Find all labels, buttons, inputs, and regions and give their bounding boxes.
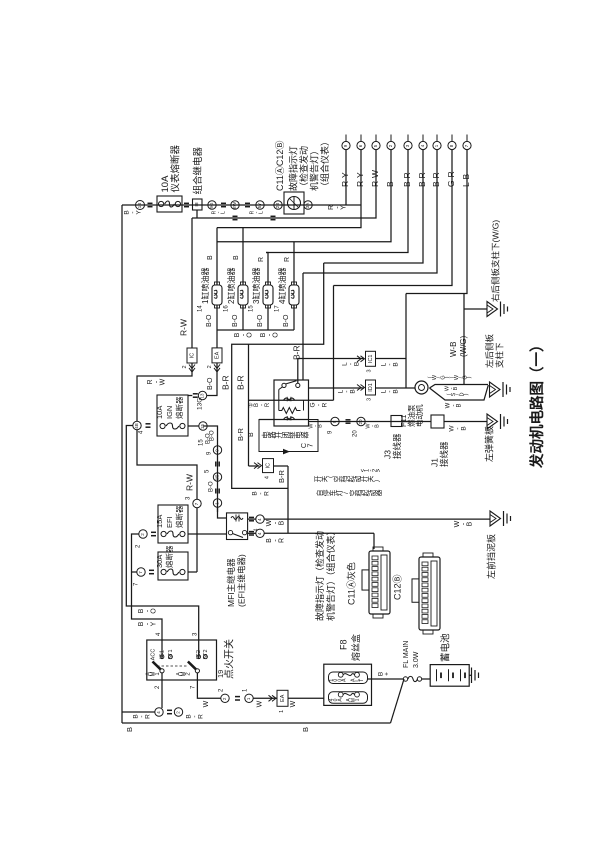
svg-text:C11ⒶC12Ⓑ: C11ⒶC12Ⓑ bbox=[275, 141, 285, 191]
svg-text:30A: 30A bbox=[155, 555, 164, 568]
svg-text:B: B bbox=[279, 520, 286, 525]
svg-text:3: 3 bbox=[366, 369, 372, 372]
svg-text:B-R: B-R bbox=[220, 375, 230, 390]
svg-text:R: R bbox=[258, 257, 265, 262]
svg-text:Y: Y bbox=[341, 205, 348, 210]
svg-text:B-R: B-R bbox=[417, 172, 427, 187]
svg-text:B: B bbox=[453, 386, 459, 390]
svg-text:机警告灯）（组合仪表）: 机警告灯）（组合仪表） bbox=[325, 526, 336, 621]
svg-text:): ) bbox=[467, 376, 473, 378]
svg-text:20: 20 bbox=[353, 430, 359, 437]
svg-text:FL MAIN: FL MAIN bbox=[403, 641, 410, 668]
svg-text:B-R: B-R bbox=[291, 345, 301, 360]
svg-text:1E: 1E bbox=[215, 475, 220, 481]
svg-text:机警告灯）: 机警告灯） bbox=[308, 146, 319, 191]
svg-text:4B: 4B bbox=[134, 423, 139, 429]
svg-text:左后侧板: 左后侧板 bbox=[484, 333, 494, 368]
svg-text:O: O bbox=[273, 332, 280, 338]
svg-text:B: B bbox=[248, 432, 255, 437]
svg-text:熔断器: 熔断器 bbox=[174, 505, 184, 528]
svg-text:B: B bbox=[125, 727, 134, 732]
svg-text:): ) bbox=[464, 393, 470, 395]
svg-text:L: L bbox=[259, 211, 265, 214]
svg-text:5Y: 5Y bbox=[257, 203, 262, 209]
svg-text:1: 1 bbox=[355, 698, 361, 701]
svg-text:故障指示灯（检查发动: 故障指示灯（检查发动 bbox=[314, 531, 325, 621]
svg-text:B-O: B-O bbox=[209, 481, 215, 492]
svg-text:R: R bbox=[264, 491, 271, 496]
svg-text:≋: ≋ bbox=[195, 202, 201, 207]
svg-text:7: 7 bbox=[306, 444, 315, 448]
svg-text:20: 20 bbox=[358, 419, 363, 425]
svg-text:1缸喷油器: 1缸喷油器 bbox=[200, 268, 210, 304]
svg-text:L-B: L-B bbox=[461, 173, 471, 187]
svg-text:左弹簧板: 左弹簧板 bbox=[483, 426, 494, 462]
svg-text:B-O: B-O bbox=[283, 314, 290, 327]
svg-text:B: B bbox=[207, 255, 214, 260]
svg-text:F8: F8 bbox=[338, 639, 348, 650]
svg-text:4: 4 bbox=[264, 476, 270, 479]
svg-text:W: W bbox=[160, 378, 167, 385]
svg-text:熔断器: 熔断器 bbox=[164, 545, 174, 568]
svg-text:J3: J3 bbox=[382, 450, 392, 459]
svg-text:电动机: 电动机 bbox=[414, 404, 424, 427]
svg-text:IC: IC bbox=[189, 353, 195, 359]
svg-text:Y: Y bbox=[151, 621, 158, 626]
svg-text:3缸喷油器: 3缸喷油器 bbox=[251, 268, 261, 304]
svg-text:W: W bbox=[290, 700, 297, 707]
svg-text:右后侧板支柱下(W/G): 右后侧板支柱下(W/G) bbox=[490, 220, 500, 302]
svg-text:B-O: B-O bbox=[232, 314, 239, 327]
svg-text:3A: 3A bbox=[305, 203, 310, 209]
svg-text:EA: EA bbox=[214, 351, 220, 359]
svg-text:R: R bbox=[279, 538, 286, 543]
svg-text:15A: 15A bbox=[155, 515, 164, 528]
svg-text:B: B bbox=[233, 255, 240, 260]
svg-text:+: + bbox=[384, 672, 391, 676]
svg-text:B-R: B-R bbox=[235, 375, 245, 390]
svg-text:B: B bbox=[301, 727, 310, 732]
svg-text:B: B bbox=[350, 389, 357, 393]
svg-text:C12Ⓑ: C12Ⓑ bbox=[392, 574, 402, 600]
svg-text:14: 14 bbox=[198, 305, 204, 312]
svg-text:(W/G): (W/G) bbox=[459, 335, 468, 357]
svg-text:2缸喷油器: 2缸喷油器 bbox=[226, 268, 236, 304]
svg-text:MFI主继电器: MFI主继电器 bbox=[226, 558, 236, 607]
svg-text:熔断器: 熔断器 bbox=[174, 396, 184, 419]
svg-text:(EFI主继电器): (EFI主继电器) bbox=[236, 554, 246, 607]
svg-text:B: B bbox=[461, 426, 468, 430]
svg-text:W-B: W-B bbox=[449, 342, 458, 357]
svg-text:Y: Y bbox=[136, 210, 143, 215]
svg-text:G-R: G-R bbox=[446, 171, 456, 187]
svg-text:10A: 10A bbox=[160, 175, 171, 193]
svg-text:19: 19 bbox=[216, 670, 225, 678]
svg-text:左前挡泥板: 左前挡泥板 bbox=[485, 534, 496, 579]
svg-text:R: R bbox=[265, 402, 271, 407]
svg-text:ACC: ACC bbox=[150, 649, 156, 661]
svg-text:蓄电池: 蓄电池 bbox=[440, 633, 452, 662]
svg-text:R-Y: R-Y bbox=[340, 172, 350, 187]
svg-text:器: 器 bbox=[301, 431, 310, 438]
svg-text:ID1: ID1 bbox=[368, 383, 374, 392]
svg-text:B: B bbox=[393, 362, 400, 366]
svg-text:>: > bbox=[377, 468, 383, 472]
svg-text:B: B bbox=[317, 424, 323, 428]
svg-text:15: 15 bbox=[199, 439, 205, 446]
svg-text:熔丝盒: 熔丝盒 bbox=[350, 634, 361, 661]
svg-text:B: B bbox=[467, 521, 474, 526]
svg-text:B-O: B-O bbox=[210, 430, 216, 441]
svg-text:B-R: B-R bbox=[236, 428, 245, 442]
svg-text:接线器: 接线器 bbox=[439, 441, 449, 467]
svg-text:3.0W: 3.0W bbox=[413, 651, 420, 668]
svg-text:IC: IC bbox=[265, 463, 271, 469]
svg-text:C11Ⓐ灰色: C11Ⓐ灰色 bbox=[345, 562, 356, 605]
svg-text:17: 17 bbox=[275, 305, 281, 312]
svg-text:EA: EA bbox=[280, 694, 286, 702]
svg-text:B-R: B-R bbox=[431, 172, 441, 187]
svg-text:B: B bbox=[385, 181, 395, 187]
svg-text:15: 15 bbox=[249, 305, 255, 312]
svg-text:接线器: 接线器 bbox=[392, 433, 402, 459]
svg-text:O: O bbox=[247, 332, 254, 338]
svg-text:13: 13 bbox=[200, 393, 205, 399]
svg-text:B-R: B-R bbox=[402, 172, 412, 187]
svg-text:16: 16 bbox=[224, 305, 230, 312]
svg-text:1: 1 bbox=[279, 710, 285, 713]
svg-text:R-W: R-W bbox=[184, 474, 194, 491]
svg-text:B-O: B-O bbox=[207, 377, 214, 390]
svg-text:R: R bbox=[284, 257, 291, 262]
svg-text:6W: 6W bbox=[232, 201, 237, 209]
svg-text:2: 2 bbox=[207, 365, 213, 368]
svg-text:B: B bbox=[354, 362, 361, 366]
svg-text:J1: J1 bbox=[429, 458, 439, 467]
svg-text:3: 3 bbox=[366, 398, 372, 401]
svg-text:13G: 13G bbox=[197, 398, 204, 410]
svg-text:4缸喷油器: 4缸喷油器 bbox=[277, 268, 287, 304]
svg-text:）: ） bbox=[373, 476, 381, 483]
svg-text:组合继电器: 组合继电器 bbox=[192, 146, 204, 194]
svg-text:9G: 9G bbox=[209, 202, 214, 209]
svg-text:发动机电路图（一）: 发动机电路图（一） bbox=[528, 338, 546, 470]
svg-text:B: B bbox=[457, 403, 463, 407]
svg-text:L: L bbox=[221, 211, 227, 214]
svg-text:B-O: B-O bbox=[206, 314, 213, 327]
svg-text:W: W bbox=[256, 700, 263, 707]
svg-text:仪表熔断器: 仪表熔断器 bbox=[170, 144, 182, 192]
svg-text:B: B bbox=[393, 389, 400, 393]
svg-text:W: W bbox=[203, 700, 210, 707]
svg-text:点火开关: 点火开关 bbox=[223, 639, 236, 679]
svg-text:R: R bbox=[145, 714, 152, 719]
svg-text:R: R bbox=[322, 402, 329, 407]
svg-text:T: T bbox=[359, 679, 365, 682]
svg-text:1B: 1B bbox=[137, 203, 142, 209]
svg-text:R-W: R-W bbox=[178, 319, 188, 336]
svg-text:支柱下: 支柱下 bbox=[494, 342, 504, 368]
svg-text:2B: 2B bbox=[275, 203, 280, 209]
svg-text:R-Y: R-Y bbox=[355, 172, 365, 187]
svg-text:O: O bbox=[151, 608, 158, 614]
svg-text:B-R: B-R bbox=[277, 470, 286, 484]
svg-text:（检查发动: （检查发动 bbox=[298, 146, 309, 191]
svg-text:IGN: IGN bbox=[165, 406, 174, 419]
svg-text:2: 2 bbox=[182, 365, 188, 368]
svg-text:10A: 10A bbox=[155, 406, 164, 419]
svg-text:EFI: EFI bbox=[165, 516, 174, 528]
svg-text:器: 器 bbox=[375, 489, 383, 496]
svg-text:B-O: B-O bbox=[257, 314, 264, 327]
svg-text:IC1: IC1 bbox=[368, 355, 374, 364]
svg-text:（组合仪表）: （组合仪表） bbox=[319, 137, 330, 191]
svg-text:R: R bbox=[198, 714, 205, 719]
svg-text:故障指示灯: 故障指示灯 bbox=[287, 146, 298, 191]
svg-text:R-W: R-W bbox=[370, 170, 380, 187]
svg-text:B: B bbox=[374, 424, 380, 428]
